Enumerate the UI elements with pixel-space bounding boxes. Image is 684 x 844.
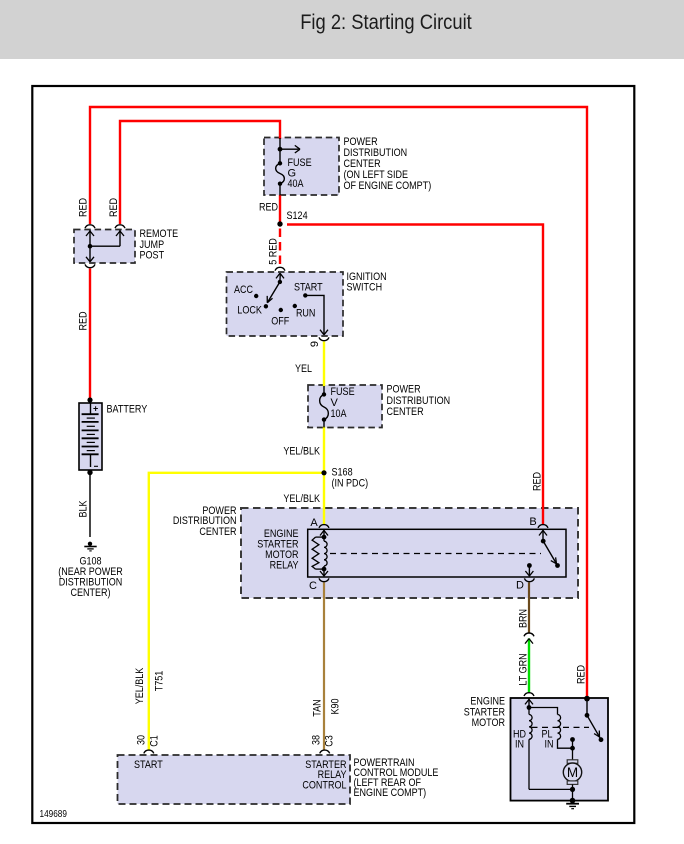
pin label A [310, 517, 318, 529]
svg-text:Fig 2: Starting Circuit: Fig 2: Starting Circuit [300, 10, 472, 34]
svg-text:BATTERY: BATTERY [107, 404, 148, 416]
fuse F1: FUSE G 40A symbol [276, 138, 300, 196]
svg-text:YEL/BLK: YEL/BLK [283, 446, 320, 458]
fuse block box: POWER DISTRIBUTION CENTER (FUSE V) [308, 385, 382, 428]
svg-text:YEL: YEL [295, 363, 312, 375]
svg-text:S124: S124 [287, 210, 308, 222]
svg-text:IN: IN [515, 739, 524, 751]
svg-text:C: C [309, 580, 317, 592]
svg-text:D: D [516, 580, 524, 592]
position label LOCK [237, 305, 262, 317]
svg-text:38: 38 [311, 735, 323, 745]
value label: FUSE V 10A [331, 386, 355, 420]
svg-text:CONTROL: CONTROL [302, 779, 346, 791]
wire label RED (battery feed) [78, 311, 90, 330]
figure number 149689 [40, 809, 68, 820]
label: REMOTE JUMP POST [140, 228, 179, 262]
svg-text:5 RED: 5 RED [268, 238, 280, 265]
svg-text:C3: C3 [324, 735, 336, 747]
position label OFF [271, 316, 289, 328]
svg-text:10A: 10A [331, 408, 348, 420]
splice S168 [321, 470, 326, 475]
wire label RED (starter B+) [576, 665, 588, 684]
node label S168 (IN PDC) [332, 467, 369, 490]
motor box: ENGINE STARTER MOTOR [511, 698, 609, 801]
pin label 30 [136, 735, 148, 745]
label: ENGINE STARTER MOTOR [464, 696, 505, 730]
battery B1 symbol [82, 397, 99, 475]
pin label B [529, 516, 536, 528]
position label START [294, 282, 323, 294]
svg-text:RED: RED [259, 202, 278, 214]
wire: RED battery positive rail from remote jump post up across top and down to starter motor B+ [90, 107, 587, 698]
svg-text:START: START [134, 759, 163, 771]
fuse block box: POWER DISTRIBUTION CENTER (FUSE G) [264, 138, 339, 196]
wire: YEL/BLK branch from S168 left and down to PCM START input [149, 473, 322, 750]
svg-text:ACC: ACC [234, 284, 253, 296]
svg-text:MOTOR: MOTOR [472, 717, 505, 729]
svg-text:RELAY: RELAY [270, 560, 299, 572]
label: IGNITION SWITCH [347, 271, 387, 294]
wire label YEL [295, 363, 312, 375]
connector box: REMOTE JUMP POST [74, 230, 135, 264]
wire label YEL/BLK (above S168) [283, 446, 320, 458]
wire label T751 [154, 671, 166, 692]
svg-text:RED: RED [532, 472, 544, 491]
svg-text:A: A [310, 517, 318, 529]
svg-text:30: 30 [136, 735, 148, 745]
label: BATTERY [107, 404, 148, 416]
label: ENGINE STARTER MOTOR RELAY [257, 528, 299, 572]
svg-text:YEL/BLK: YEL/BLK [283, 493, 320, 505]
wire: LT GRN inline connector down to engine starter motor [528, 638, 530, 692]
terminal label STARTER RELAY CONTROL (PCM) [302, 759, 347, 791]
svg-text:ENGINE COMPT): ENGINE COMPT) [354, 787, 427, 799]
svg-text:TAN: TAN [312, 699, 324, 716]
svg-text:BRN: BRN [518, 609, 530, 628]
wire label RED (jump post left) [78, 198, 90, 217]
svg-text:T751: T751 [154, 671, 166, 692]
svg-text:CENTER: CENTER [387, 406, 424, 418]
splice S124 [277, 221, 282, 226]
relay U1 terminal B entry and switch contact [538, 525, 560, 568]
wire: BRN relay terminal D down to inline connector [528, 582, 530, 633]
wire: BLK battery negative to ground G108 [89, 472, 91, 537]
svg-text:B: B [529, 516, 536, 528]
remote jump post terminals and internal links [85, 225, 125, 268]
battery B1 box [79, 403, 102, 470]
svg-text:40A: 40A [288, 178, 305, 190]
starter motor terminal entry (from relay) [524, 693, 534, 710]
starter motor solenoid switch [584, 696, 603, 742]
svg-text:YEL/BLK: YEL/BLK [134, 667, 146, 704]
svg-text:RED: RED [78, 198, 90, 217]
wire label TAN [312, 699, 324, 716]
wire label K90 [330, 699, 342, 715]
relay U1 terminal C exit [319, 569, 329, 582]
wire label LT GRN [518, 653, 530, 685]
svg-text:POWER: POWER [387, 384, 421, 396]
wire: YEL/BLK fuse V output down to splice S168 and relay terminal A [323, 427, 325, 525]
svg-text:C1: C1 [149, 735, 161, 747]
position label ACC [234, 284, 253, 296]
wire label 9 (circuit number) [309, 341, 321, 347]
svg-text:149689: 149689 [40, 809, 68, 820]
svg-text:CENTER: CENTER [199, 526, 236, 538]
wire: RED from remote jump post down to battery positive [89, 269, 91, 400]
starter motor HD IN winding [529, 708, 573, 790]
relay U1 terminal D exit [524, 563, 534, 582]
starter motor solenoid dashed link [532, 726, 590, 728]
svg-text:9: 9 [309, 341, 321, 347]
wire: RED fuse G output down to splice S124 [279, 195, 281, 222]
pin label C [309, 580, 317, 592]
winding label HD IN [513, 729, 526, 751]
PCM terminal C1 pin 30 entry arc [144, 750, 154, 753]
starter motor PL IN winding [529, 708, 573, 749]
wire label RED (relay B feed) [532, 472, 544, 491]
relay U1 coil [312, 535, 327, 572]
wire label BLK [78, 500, 90, 518]
wire label RED (fuse G output) [259, 202, 278, 214]
inline connector between BRN and LT GRN [524, 633, 534, 644]
svg-text:RED: RED [78, 311, 90, 330]
svg-text:K90: K90 [330, 699, 342, 715]
label: POWER DISTRIBUTION CENTER (relay housing) [173, 505, 237, 538]
switch box: IGNITION SWITCH [227, 272, 344, 336]
svg-text:POST: POST [140, 250, 165, 262]
relay U1 internal dashed link [330, 553, 541, 555]
svg-text:SWITCH: SWITCH [347, 282, 383, 294]
pin label 38 [311, 735, 323, 745]
pin label D [516, 580, 524, 592]
relay U1 terminal A entry [319, 525, 329, 537]
motor M armature [563, 737, 581, 801]
position label RUN [296, 308, 316, 320]
module box: POWERTRAIN CONTROL MODULE [118, 755, 351, 804]
wire label YEL/BLK (below S168) [283, 493, 320, 505]
ignition switch terminal, contacts and lever [254, 267, 329, 340]
svg-text:OFF: OFF [271, 316, 289, 328]
title bar [0, 0, 684, 59]
fuse F2: FUSE V 10A symbol [320, 386, 329, 428]
node label S124 [287, 210, 308, 222]
svg-text:RUN: RUN [296, 308, 316, 320]
wire: RED branch from top rail to fuse G (via remote jump post right terminal) [120, 121, 280, 224]
label: POWER DISTRIBUTION CENTER (ON LEFT SIDE OF ENGINE COMPT) [344, 136, 432, 192]
winding label PL IN [542, 729, 554, 751]
label: POWERTRAIN CONTROL MODULE (LEFT REAR OF ENGINE COMPT) [354, 757, 439, 799]
wire label RED (jump post right) [108, 198, 120, 217]
svg-text:+: + [93, 404, 98, 414]
svg-text:M: M [567, 765, 578, 780]
wire label BRN [518, 609, 530, 628]
svg-text:BLK: BLK [78, 500, 90, 518]
svg-text:LOCK: LOCK [237, 305, 262, 317]
wire label 5 RED (dashed circuit) [268, 238, 280, 265]
terminal label START (PCM) [134, 759, 163, 771]
svg-text:START: START [294, 282, 323, 294]
pin label C1 [149, 735, 161, 747]
wire: circuit 5 RED (dashed) from S124 down to ignition switch [279, 229, 281, 268]
svg-text:RED: RED [108, 198, 120, 217]
svg-text:(IN PDC): (IN PDC) [332, 478, 369, 490]
relay U1: ENGINE STARTER MOTOR RELAY inner box [308, 529, 566, 577]
svg-text:IN: IN [545, 739, 554, 751]
starter motor case ground [566, 798, 579, 809]
ground label G108 (NEAR POWER DISTRIBUTION CENTER) [58, 556, 123, 600]
wire: RED from splice S124 right and down to relay terminal B [287, 225, 543, 525]
wire: circuit T751/K90 TAN relay terminal C down to PCM starter relay control [323, 582, 325, 750]
module box: POWER DISTRIBUTION CENTER (relay housing) [241, 508, 578, 598]
svg-text:RED: RED [576, 665, 588, 684]
svg-text:LT GRN: LT GRN [518, 653, 530, 685]
pin label C3 [324, 735, 336, 747]
label: POWER DISTRIBUTION CENTER (fuse V) [387, 384, 451, 419]
wire: circuit 9 YEL ignition switch START output to fuse V [323, 342, 325, 387]
wire label YEL/BLK (PCM branch) [134, 667, 146, 704]
value label: FUSE G 40A [288, 157, 312, 190]
ground G108 [84, 542, 96, 551]
svg-text:CENTER): CENTER) [70, 587, 110, 599]
svg-text:OF ENGINE COMPT): OF ENGINE COMPT) [344, 180, 432, 192]
PCM terminal C3 pin 38 entry arc [320, 750, 330, 753]
